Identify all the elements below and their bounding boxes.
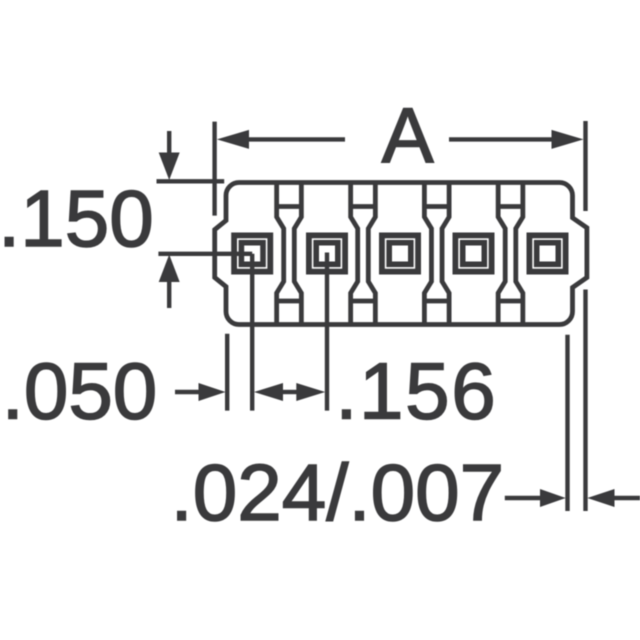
leader line pad2 vertical (.156 reference)	[325, 253, 329, 411]
.150 up arrowhead	[159, 255, 180, 283]
.050 double arrow shaft	[282, 390, 297, 394]
contact pad 2	[309, 235, 345, 271]
leader line pad1 horizontal (.150 lower reference)	[158, 252, 252, 256]
.050 left arrow shaft	[175, 390, 200, 394]
svg-text:.156: .156	[335, 347, 497, 436]
.150 down arrow shaft	[167, 131, 171, 154]
dim A line right segment	[449, 137, 553, 141]
dim A left extension line	[212, 122, 216, 216]
.050 right-pointing arrowhead	[199, 383, 226, 401]
.050 pitch left-pointing arrowhead	[254, 383, 283, 401]
svg-text:A: A	[382, 91, 434, 179]
channel slot 1	[277, 183, 302, 324]
leader line pad1 vertical (.050/.156 reference)	[250, 254, 254, 411]
svg-text:.050: .050	[2, 347, 158, 436]
.050 pitch right-pointing arrowhead	[296, 383, 325, 401]
channel slot 4	[498, 183, 523, 324]
.024 right arrow shaft	[613, 496, 640, 500]
.150 upper reference line	[157, 179, 225, 183]
contact pad 3	[382, 235, 418, 271]
.050 left extension line	[225, 334, 229, 411]
contact pad 5	[529, 235, 565, 271]
.150 down arrowhead	[159, 153, 180, 181]
contact pad 4	[455, 235, 491, 271]
.024 right-pointing arrowhead	[540, 489, 566, 507]
channel slot 2	[351, 183, 376, 324]
.024 left arrow shaft	[505, 496, 541, 500]
dim A right arrowhead	[552, 130, 584, 149]
dim A line left segment	[248, 137, 345, 141]
contact pad 1	[234, 235, 270, 271]
dim A left arrowhead	[217, 130, 249, 149]
dim A / .024 right extension line	[583, 121, 587, 511]
channel slot 3	[424, 183, 449, 324]
svg-text:.150: .150	[0, 174, 154, 263]
.150 up arrow shaft	[167, 281, 171, 308]
connector body outline	[215, 183, 587, 325]
.024 left-pointing arrowhead	[587, 489, 614, 507]
.024 left extension line	[565, 335, 569, 511]
svg-text:.024/.007: .024/.007	[171, 448, 505, 537]
